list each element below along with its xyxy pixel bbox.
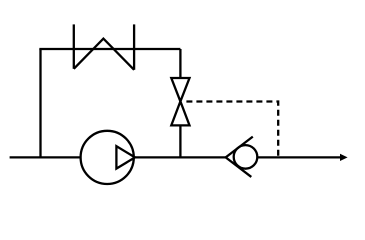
check valve CV1 <box>226 137 258 177</box>
wire: right riser lower <box>179 125 181 157</box>
wire: bypass top run <box>39 48 180 50</box>
wire: main line left segment <box>10 156 80 158</box>
valve V1 (top bypass valve) <box>74 24 134 69</box>
signal line (dashed) from valve V2 <box>182 102 278 158</box>
wire: main line pump to check valve <box>135 156 226 158</box>
wire: right riser upper <box>179 49 181 78</box>
pump P1 <box>81 131 135 184</box>
arrowhead: flow direction <box>340 154 348 161</box>
wire: main line outlet <box>257 156 341 158</box>
wire: bypass left riser <box>39 49 41 157</box>
valve V2 (vertical control valve) <box>171 78 189 125</box>
